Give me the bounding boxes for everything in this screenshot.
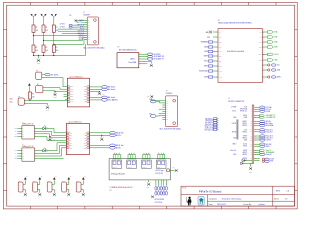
wire TP1 to R1 xyxy=(33,19,35,25)
wire block2 gnd drop xyxy=(101,135,103,137)
test point TP3 xyxy=(51,14,57,19)
wire D2 anode xyxy=(39,150,43,152)
ground LED jack xyxy=(46,106,49,109)
sheet pin block1 left 1 xyxy=(67,86,70,88)
pin U2-1 xyxy=(139,53,148,55)
testpoint circle SDA xyxy=(268,69,270,71)
pin U3 right 2 (M1B) xyxy=(262,36,267,38)
ground SSR xyxy=(49,137,51,138)
testpoint circle AGIN xyxy=(268,76,270,78)
sheet pin block2 right 7 xyxy=(86,147,89,149)
wire P3 gnd xyxy=(52,190,54,193)
pin J1-7 xyxy=(84,32,87,34)
pin J4 right 18 xyxy=(254,129,260,131)
pin U3 left 7 (M1C5) xyxy=(213,60,218,62)
pin U3 left 1 (GND) xyxy=(213,31,218,33)
wire R4 to gnd bus xyxy=(33,52,35,55)
pin U7 left 1 xyxy=(17,128,22,130)
wire input bus 1 xyxy=(34,35,86,37)
pin J1-8 xyxy=(84,35,87,37)
sheet pin block2 right 2 xyxy=(86,135,89,137)
wire block1 right 4 xyxy=(90,99,102,101)
sheet pin block2 right 3 xyxy=(86,137,89,139)
global label BU Switch xyxy=(102,86,108,89)
pin U8 right 3 xyxy=(35,155,40,157)
test point TP2 xyxy=(41,14,47,19)
pin U3 right i2c SCL xyxy=(262,64,267,66)
pin U8 right 1 xyxy=(35,150,40,152)
wire R3 down xyxy=(53,32,55,45)
pin J4 right 6 xyxy=(254,110,260,112)
pin U7 right 3 xyxy=(35,133,40,135)
global label BL EN xyxy=(110,147,116,150)
pin U7 left 3 xyxy=(17,133,22,135)
svg-text:Neo M8N: Neo M8N xyxy=(129,62,137,64)
pin U8 right 4 xyxy=(35,158,40,160)
resistor R2 10K xyxy=(42,25,45,32)
sheet pin block2 right 1 xyxy=(86,132,89,134)
wire U8 to block2 3 xyxy=(39,148,66,156)
pin U3 right i2c AGIN xyxy=(262,76,267,78)
global label M1B green xyxy=(267,36,273,38)
ground block2 xyxy=(100,138,103,141)
wire block1 right 2 xyxy=(90,88,102,90)
pin J4 right 40 xyxy=(254,160,260,162)
sheet pin block2 left 5 xyxy=(66,142,69,144)
ground P4 xyxy=(67,193,70,196)
pin J4 right 2 xyxy=(254,106,260,108)
global label GPS UART TX xyxy=(260,114,265,116)
pin J4 right 38 xyxy=(254,158,260,160)
sheet pin block1 right 2 xyxy=(87,88,90,90)
wire J4 gnd xyxy=(250,163,252,167)
no-connect cross xyxy=(75,19,78,22)
testpoint circle SCL xyxy=(268,64,270,66)
wire block1 gnd xyxy=(90,91,100,93)
svg-text:Company:: Company: xyxy=(209,198,218,200)
ground input array xyxy=(37,59,41,63)
wire block2 right 2 xyxy=(90,134,110,136)
global label DO08 xyxy=(262,158,264,160)
pin U3 left 3 (WISEBEAU) xyxy=(213,41,218,43)
pin U7 left 2 xyxy=(17,130,22,132)
terminal block bottom xyxy=(155,186,157,190)
sheet pin block1 left 5 xyxy=(67,96,70,98)
global label GND green xyxy=(267,59,273,61)
wire U7 to block2 3 xyxy=(39,134,66,138)
wires relay module bottom xyxy=(155,180,157,186)
global label M2PW xyxy=(208,55,212,57)
filter bead FB1 xyxy=(69,24,72,26)
wire FB1 to J1 xyxy=(72,24,85,26)
sheet pin block1 left 4 xyxy=(67,93,70,95)
global label M2B green xyxy=(267,46,273,48)
global label WISEBEAU xyxy=(208,41,212,43)
global label M1A green xyxy=(267,31,273,33)
pin U8 left 4 xyxy=(17,158,22,160)
pin J4 right 4 xyxy=(254,108,260,110)
global label Wise DATA xyxy=(260,124,265,126)
pin U3 right 1 (M1A) xyxy=(262,31,267,33)
pin U3 left 6 (M2PW) xyxy=(213,55,218,57)
LED D2 xyxy=(43,148,46,153)
global label M09A xyxy=(208,76,212,78)
wire to +5V xyxy=(170,169,174,171)
sheet pin block2 left 1 xyxy=(66,132,69,134)
ground P5 xyxy=(82,193,85,196)
wire J1 pin7 stub xyxy=(62,32,85,34)
junction dots input array xyxy=(33,35,34,36)
global label GPS UART TX xyxy=(147,58,152,60)
wire block1 right 3 xyxy=(90,96,102,98)
resistor R9 10K xyxy=(28,92,31,99)
svg-text:4 Relays Module: 4 Relays Module xyxy=(111,174,125,176)
sheet pin block2 right 6 xyxy=(86,145,89,147)
pin J3-9 xyxy=(162,117,165,119)
global label I2C SDA xyxy=(260,106,265,108)
wire J3 pin1 xyxy=(152,98,163,101)
wire U8 to block2 1 xyxy=(45,143,66,151)
header relay K1 xyxy=(113,154,120,158)
wire U5 pin1 to block1 xyxy=(43,88,67,90)
svg-text:pellipse: pellipse xyxy=(259,204,265,206)
global label PI03 xyxy=(262,160,264,162)
pin U2-4 xyxy=(139,60,148,62)
frame division ticks xyxy=(3,2,297,209)
wire R9 bottom junction xyxy=(29,99,31,100)
global label BU AZ Dim xyxy=(110,132,116,135)
pin J4 right 24 xyxy=(254,137,260,139)
sheet pin block1 right 6 xyxy=(87,98,90,100)
wire J3 pin7 stub xyxy=(159,112,163,114)
power arrow P3 xyxy=(53,177,55,180)
header relay K4 xyxy=(158,154,165,158)
ground button bus xyxy=(54,92,56,93)
resistor R6 10K xyxy=(52,45,55,52)
global label I2C SCL xyxy=(260,108,265,110)
wire block1 left stub 5 xyxy=(64,96,68,98)
pin U3 right 3 (M2A) xyxy=(262,41,267,43)
ground block1 xyxy=(98,92,101,95)
pin J4 right 8 xyxy=(254,114,260,116)
pin J3-8 xyxy=(162,115,165,117)
wire R2 down xyxy=(43,32,45,45)
bus bar left of J4 xyxy=(237,120,239,140)
svg-text:1/1: 1/1 xyxy=(285,198,287,200)
pin J3-1 xyxy=(162,100,165,102)
wire D1 anode xyxy=(39,128,43,130)
wire WD minus to J3 xyxy=(156,115,162,118)
pin J1-2 xyxy=(84,22,87,24)
pin J4 right 26 xyxy=(254,139,260,141)
svg-text:2021-04-17: 2021-04-17 xyxy=(217,204,226,206)
power arrow P1 xyxy=(24,177,26,180)
global label MIPW xyxy=(208,65,212,67)
wire U6 pin1 bus to block1 xyxy=(24,99,67,101)
global label Relay IN 3 xyxy=(260,135,265,137)
wire D4 xyxy=(243,162,252,164)
ground J4 xyxy=(249,167,252,170)
wire U4 pin1 xyxy=(42,73,45,75)
relay K1 xyxy=(112,160,122,168)
pin J1-5 xyxy=(84,28,87,30)
pin J4 right 14 xyxy=(254,123,260,125)
diode D4 xyxy=(241,162,243,164)
global label Relay IN 1 xyxy=(260,129,265,131)
diode D3 xyxy=(242,159,244,161)
global label M1SDN DUAL xyxy=(208,70,212,72)
wire R6 to gnd bus xyxy=(53,52,55,55)
pin J3-4 xyxy=(162,106,165,108)
sheet pin block1 left 7 xyxy=(67,101,70,103)
wire P5 gnd xyxy=(81,190,83,193)
pin J4 right 16 xyxy=(254,125,260,127)
wire J1 pin6 stub xyxy=(58,30,85,32)
wire D3 xyxy=(244,160,252,162)
header relay K2 xyxy=(128,154,135,158)
wire P1 vcc xyxy=(23,181,25,184)
sheet pin block2 left 7 xyxy=(66,147,69,149)
svg-text:UBlox: UBlox xyxy=(130,59,135,61)
wire P1 gnd xyxy=(23,190,25,193)
power arrow P5 xyxy=(82,177,84,180)
jumper JP1 xyxy=(167,169,170,172)
sheet pin block2 left 6 xyxy=(66,145,69,147)
relay K2 xyxy=(127,160,137,168)
sheet pin block1 right 1 xyxy=(87,86,90,88)
filter bead FB2 xyxy=(69,26,72,28)
global label Btn Switch xyxy=(45,73,50,76)
wire block2 right 1 xyxy=(90,132,110,134)
svg-text:REV.: REV. xyxy=(276,191,281,193)
ground P2 xyxy=(38,193,41,196)
global label BU BL Dim xyxy=(110,144,116,147)
pin U7 right 4 xyxy=(35,136,40,138)
global label SEDA xyxy=(208,46,212,48)
pin J1-9 xyxy=(84,37,87,39)
global label SDA xyxy=(271,69,276,71)
global label MISB xyxy=(208,50,212,52)
global label AGIN xyxy=(271,76,276,78)
pin U2-2 xyxy=(139,56,148,58)
wire J1 shield down xyxy=(85,44,87,56)
title block frame xyxy=(181,186,295,206)
pin J1-3 xyxy=(84,24,87,26)
wire block1 right 1 xyxy=(90,86,102,88)
global label GPS PPS xyxy=(147,53,152,55)
pin J1-4 xyxy=(84,26,87,28)
global label AU Switch xyxy=(102,96,108,99)
pin J4 right 28 xyxy=(254,143,260,145)
global label WISEA/RAIN xyxy=(260,151,265,153)
ground P1 xyxy=(24,193,27,196)
pin U3 right i2c SDA xyxy=(262,69,267,71)
pin U2-5 xyxy=(139,63,148,65)
power arrow P2 xyxy=(39,177,41,180)
pin U3 left 10 (M09A) xyxy=(213,76,218,78)
sheet pin block1 left 6 xyxy=(67,98,70,100)
test point TP1 xyxy=(31,14,37,19)
global label M1C5 xyxy=(208,60,212,62)
global label OW DB xyxy=(260,139,265,141)
pin U8 right 2 xyxy=(35,153,40,155)
logo person xyxy=(186,197,191,206)
wire U8 to block2 2 xyxy=(39,145,66,153)
wire to ground xyxy=(38,56,40,59)
wire U8 pin4 stub xyxy=(39,158,63,160)
pin J4 right 10 xyxy=(254,116,260,118)
wire WD plus to J3 xyxy=(156,101,162,103)
border frame inner xyxy=(7,5,295,206)
wire U5 pin2 to block1 xyxy=(43,90,67,93)
pin J3-2 xyxy=(162,102,165,104)
sheet pin block2 left 3 xyxy=(66,137,69,139)
border frame outer xyxy=(3,2,297,209)
pin U3 left 2 (3.3V) xyxy=(213,36,218,38)
header relay K3 xyxy=(143,154,150,158)
pin U8 left 2 xyxy=(17,153,22,155)
pin U3 right 4 (M2B) xyxy=(262,46,267,48)
wire P2 vcc xyxy=(38,181,40,184)
global label M2A green xyxy=(267,41,273,43)
global label SSR 1 xyxy=(260,145,265,147)
ground P3 xyxy=(53,193,56,196)
wire J1 pin5 stub xyxy=(58,28,85,30)
wire U6 pin2 to gnd xyxy=(24,104,47,106)
pin J3-10 xyxy=(162,119,165,121)
global label Wise TX xyxy=(260,149,265,151)
wire block1 left stub 4 xyxy=(64,93,68,95)
global label WD WDI xyxy=(260,143,265,145)
power arrow P4 xyxy=(68,177,70,180)
pin J4 right 22 xyxy=(254,135,260,137)
global label Btn Switch xyxy=(102,88,108,91)
svg-text:PiRaTe IO Board: PiRaTe IO Board xyxy=(199,189,222,193)
resistor R5 10K xyxy=(42,45,45,52)
power VCC arrow xyxy=(28,84,30,87)
global label GPS UART RX xyxy=(260,116,265,118)
pin J3-6 xyxy=(162,110,165,112)
pin J1-6 xyxy=(84,30,87,32)
module A1 4 relays xyxy=(109,159,170,180)
sheet pin block1 right 5 xyxy=(87,96,90,98)
LED D1 xyxy=(43,125,46,129)
sheet pin block1 left 3 xyxy=(67,91,70,93)
logo emblem xyxy=(198,197,204,206)
sheet pin block1 right 4 xyxy=(87,93,90,95)
wire P3 vcc xyxy=(52,181,54,184)
global label Relay IN 2 xyxy=(260,131,265,133)
wire R5 to gnd bus xyxy=(43,52,45,55)
wire J1 pin1 long xyxy=(77,20,84,22)
resistor R3 10K xyxy=(52,25,55,32)
sheet pin block2 left 4 xyxy=(66,140,69,142)
pin J3-5 xyxy=(162,108,165,110)
pin J4 right 32 xyxy=(254,149,260,151)
ground U2 xyxy=(147,60,151,62)
wire block2 right 3 xyxy=(90,144,110,146)
relay K4 xyxy=(156,160,166,168)
pin J4 right 30 xyxy=(254,145,260,147)
wire VCC to R9 xyxy=(28,87,30,92)
pin U3 left 5 (MISB) xyxy=(213,51,218,53)
pin U7 right 2 xyxy=(35,130,40,132)
global label GPS UART RX xyxy=(147,55,152,57)
sheet pin block2 right 5 xyxy=(86,142,89,144)
wire U7 to block2 2 xyxy=(39,131,66,135)
wire P4 vcc xyxy=(67,181,69,184)
global label WD HB xyxy=(260,120,265,122)
pin J1-1 xyxy=(84,20,87,22)
pin U8 left 3 xyxy=(17,155,22,157)
sheet pin block1 right 3 xyxy=(87,91,90,93)
wire FB2 to J1 xyxy=(72,26,85,28)
pin U3 right 6 (GND) xyxy=(262,59,267,61)
global label Relay IN xyxy=(260,153,265,155)
wire input bus 2 xyxy=(44,38,86,41)
pin U3 left 8 (MIPW) xyxy=(213,65,218,67)
wire block2 right 4 xyxy=(90,147,110,149)
relay K3 xyxy=(142,160,152,168)
wire TP3 to R3 xyxy=(53,19,55,25)
pin U2-3 xyxy=(139,58,148,60)
wire R1 down xyxy=(33,32,35,45)
ground terminal xyxy=(151,195,154,198)
wire P2 gnd xyxy=(38,190,40,193)
pin U7 left 4 xyxy=(17,136,22,138)
pin J3-3 xyxy=(162,104,165,106)
wire block1 left stub 6 xyxy=(65,98,67,100)
global label VM 5v green xyxy=(267,53,273,55)
pin U7 right 1 xyxy=(35,128,40,130)
pin J4 right 36 xyxy=(254,153,260,155)
pin U3 right 5 (VM 5v) xyxy=(262,53,267,55)
pin J4 right 20 xyxy=(254,131,260,133)
ground jumper xyxy=(175,169,178,172)
global label AZ EN xyxy=(110,134,116,137)
wire gnd bus xyxy=(34,55,86,57)
wire U4 pin2 to block1 xyxy=(42,78,68,87)
global label Wise BACK A xyxy=(102,99,108,102)
pin J4 right 12 xyxy=(254,121,260,123)
pin U3 left 4 (SEDA) xyxy=(213,46,218,48)
sheet pin block1 left 2 xyxy=(67,88,70,90)
wire J3 pin5 stub xyxy=(159,108,163,110)
global label GPIO4 xyxy=(260,110,265,112)
pin J4 right 34 xyxy=(254,151,260,153)
ground relay left xyxy=(148,180,150,182)
resistor R4 10K xyxy=(32,45,35,52)
sheet pin block1 right 7 xyxy=(87,101,90,103)
wire TP2 to R2 xyxy=(43,19,45,25)
wire input bus 3 xyxy=(54,40,86,45)
wire P5 vcc xyxy=(81,181,83,184)
wire P4 gnd xyxy=(67,190,69,193)
resistor R1 10K xyxy=(32,25,35,32)
sheet pin block2 right 4 xyxy=(86,140,89,142)
wire U7 to block2 1 xyxy=(45,129,66,133)
sheet pin block2 left 2 xyxy=(66,135,69,137)
pin J3-7 xyxy=(162,112,165,114)
global label Relay IN 4 xyxy=(260,137,265,139)
wire U7 to block2 4 xyxy=(39,137,66,141)
pin U8 left 1 xyxy=(17,150,22,152)
global label SCL xyxy=(271,64,276,66)
global label Btn Switch xyxy=(260,122,265,124)
pin J1-10 xyxy=(84,39,87,41)
pin U3 left 9 (M1SDN DUAL) xyxy=(213,70,218,72)
no-connect J3 top xyxy=(150,95,153,98)
